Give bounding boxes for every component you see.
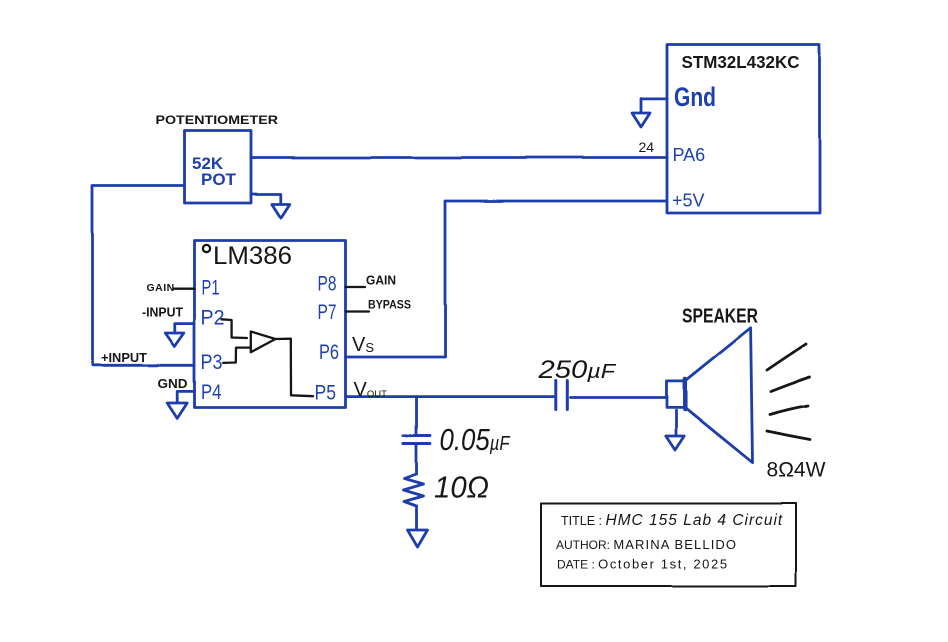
- svg-text:P7: P7: [318, 301, 337, 324]
- svg-text:P4: P4: [201, 381, 222, 404]
- svg-text:POT: POT: [201, 170, 237, 189]
- svg-text:GAIN: GAIN: [147, 282, 175, 294]
- svg-text:P5: P5: [315, 382, 337, 405]
- svg-text:24: 24: [639, 139, 655, 155]
- svg-text:BYPASS: BYPASS: [368, 298, 411, 312]
- svg-text:LM386: LM386: [213, 242, 292, 270]
- svg-text:P3: P3: [201, 351, 223, 374]
- svg-text:DATE : October 1st, 2025: DATE : October 1st, 2025: [557, 557, 729, 572]
- svg-text:P6: P6: [319, 341, 339, 364]
- svg-text:AUTHOR: MARINA BELLIDO: AUTHOR: MARINA BELLIDO: [556, 537, 737, 552]
- svg-text:TITLE : HMC 155 Lab 4 Circuit: TITLE : HMC 155 Lab 4 Circuit: [561, 512, 783, 529]
- svg-text:GND: GND: [158, 377, 188, 391]
- svg-text:-INPUT: -INPUT: [142, 306, 183, 320]
- svg-text:10Ω: 10Ω: [434, 470, 489, 505]
- svg-text:STM32L432KC: STM32L432KC: [682, 52, 800, 72]
- svg-text:P1: P1: [202, 277, 220, 300]
- svg-text:POTENTIOMETER: POTENTIOMETER: [156, 115, 279, 127]
- svg-text:Gnd: Gnd: [674, 82, 716, 112]
- svg-text:GAIN: GAIN: [366, 273, 396, 288]
- svg-text:+INPUT: +INPUT: [101, 351, 147, 365]
- svg-text:250µF: 250µF: [537, 356, 617, 384]
- svg-text:P8: P8: [318, 273, 337, 296]
- svg-text:PA6: PA6: [673, 145, 706, 165]
- svg-text:P2: P2: [201, 307, 225, 330]
- svg-text:8Ω4W: 8Ω4W: [767, 459, 826, 482]
- svg-text:+5V: +5V: [672, 191, 705, 211]
- svg-text:SPEAKER: SPEAKER: [682, 306, 758, 328]
